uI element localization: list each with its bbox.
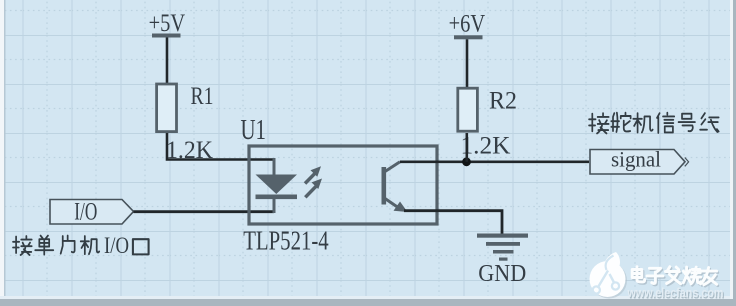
svg-text:U1: U1 <box>241 115 267 146</box>
wire emitter to GND corner <box>404 211 502 234</box>
label 接舵机信号线 <box>589 113 719 134</box>
label 接单片机I/O口 <box>13 236 149 255</box>
power bar +6V <box>454 35 483 39</box>
wire +5V to R1 <box>166 38 169 84</box>
svg-text:I/O: I/O <box>74 199 97 226</box>
wire R1 to node, corner to optocoupler pin 1 <box>167 133 274 160</box>
port I/O <box>50 200 134 225</box>
logo circle <box>590 261 626 297</box>
svg-text:+6V: +6V <box>449 11 486 38</box>
logo flame <box>604 252 620 273</box>
resistor R1 <box>157 84 177 132</box>
logo pad 2 <box>612 282 619 289</box>
phototransistor collector <box>385 162 400 172</box>
svg-text:signal: signal <box>611 147 661 172</box>
watermark text 电子发烧友 shadow <box>634 268 718 286</box>
logo shadow <box>591 263 627 299</box>
svg-text:GND: GND <box>478 261 526 287</box>
logo trace 2 <box>610 274 615 283</box>
svg-text:R2: R2 <box>489 88 517 115</box>
svg-text:TLP521-4: TLP521-4 <box>243 226 329 256</box>
LED anode stub (pin 1 side) <box>273 158 276 175</box>
ground <box>477 234 528 261</box>
svg-text:+5V: +5V <box>149 10 186 37</box>
LED triangle <box>256 175 298 195</box>
page edge strips <box>0 0 4 306</box>
wire +6V to R2 <box>466 39 469 87</box>
watermark text 电子发烧友 <box>632 267 716 285</box>
port signal <box>590 150 685 175</box>
svg-text:I/O: I/O <box>104 233 129 258</box>
junction node (R2 / collector / signal) <box>462 157 471 166</box>
phototransistor base plate <box>382 167 387 205</box>
optocoupler U1 TLP521-4 body <box>249 146 437 224</box>
wire I/O to optocoupler pin 2 <box>134 210 275 213</box>
resistor R2 <box>458 88 478 131</box>
watermark logo elecfans <box>590 252 628 299</box>
wire R2 to junction <box>465 133 468 162</box>
logo trace 1 <box>598 271 609 289</box>
power bar +5V <box>152 34 181 38</box>
svg-text:www.elecfans.com: www.elecfans.com <box>627 285 724 300</box>
svg-text:R1: R1 <box>191 83 214 110</box>
wire collector to junction to signal <box>400 160 589 163</box>
logo flame swirl cutout <box>606 256 614 271</box>
logo pad 1 <box>593 286 600 293</box>
light arrow 1 <box>305 166 321 183</box>
LED cathode stub (pin 2 side) <box>273 199 276 213</box>
LED cathode bar <box>256 195 298 200</box>
phototransistor emitter with arrow <box>385 199 401 210</box>
light arrow 2 <box>305 179 322 198</box>
